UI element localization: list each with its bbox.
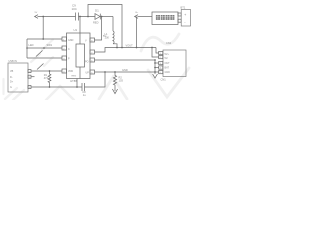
wire IC bottom stub to ground rail — [76, 79, 78, 88]
svg-text:5V+: 5V+ — [165, 53, 170, 56]
junction — [116, 47, 118, 49]
pin square U1-6 — [90, 50, 95, 54]
wire VOUT elbow to CN1 pin2 — [152, 48, 159, 58]
pin square U1-8 — [90, 70, 95, 74]
wire C9 to LED junction — [79, 16, 96, 18]
switch arm S2 — [37, 64, 44, 70]
svg-text:C: C — [68, 48, 70, 51]
junction — [87, 16, 89, 18]
pin square U2-B- — [178, 19, 181, 22]
switch arm S1 — [36, 51, 43, 57]
ground arrow — [112, 89, 117, 94]
wire top rail to C9 — [38, 16, 76, 18]
wire vertical from top net to pin1 row — [42, 17, 44, 40]
wire up from LED node to top rail — [88, 5, 122, 48]
wire down to VOUT rail — [136, 17, 138, 48]
resistor R2 vertical — [113, 72, 116, 91]
svg-text:PO: PO — [85, 61, 89, 64]
junction — [154, 59, 156, 61]
pin square U2-B+ — [178, 13, 181, 16]
wire inductor to VOUT rail — [113, 44, 117, 48]
svg-text:RED: RED — [93, 21, 99, 25]
junction — [42, 38, 44, 40]
pin square CN1-5 — [159, 70, 163, 73]
svg-text:104: 104 — [72, 7, 77, 11]
capacitor C8 plates — [82, 83, 85, 91]
node VBAT arrow (right net arrow) — [135, 15, 138, 19]
wire pin3 row — [27, 57, 62, 59]
pin square J1-2 — [28, 75, 31, 78]
junction — [136, 47, 138, 49]
diode D1 — [95, 14, 100, 20]
junction — [49, 70, 51, 72]
svg-text:5V-: 5V- — [165, 57, 169, 60]
wire inner block to IC bottom edge — [79, 67, 81, 79]
junction — [104, 71, 106, 73]
wire arrow to protection module — [138, 16, 153, 18]
wire junction down to IC pin5 — [95, 17, 102, 41]
pin square J1-1 — [28, 70, 31, 73]
wire J1-2 stub — [31, 76, 35, 78]
wire bus to CN1 pin4 — [155, 67, 159, 69]
IC U1 body — [67, 33, 91, 79]
junction — [49, 86, 51, 88]
pin square CN1-1 — [159, 51, 163, 54]
pin square J1-3 — [28, 86, 31, 89]
pin square U1-3 — [62, 56, 67, 60]
ground arrow below CN1 — [153, 74, 158, 78]
watermark — [4, 34, 190, 100]
IC U1 inner block — [76, 44, 85, 67]
pin square CN1-3 — [159, 61, 163, 64]
battery connector BT1 — [181, 10, 190, 27]
inductor L1 — [113, 31, 114, 44]
pin square U1-4 — [62, 69, 67, 73]
svg-text:HT88: HT88 — [70, 79, 77, 83]
svg-text:OUT: OUT — [165, 62, 171, 65]
wire VOUT elbow to CN1 pin1 — [156, 48, 159, 54]
svg-text:VDD: VDD — [68, 70, 73, 73]
wire pin1 row — [27, 38, 62, 40]
svg-text:SW1: SW1 — [47, 43, 53, 47]
svg-text:LED: LED — [29, 43, 34, 47]
wire cap node into IC inner block — [79, 17, 81, 45]
wire U1-8 ground row — [95, 71, 159, 73]
wire J1-3 to ground rail — [31, 86, 82, 88]
junction — [151, 47, 153, 49]
svg-text:REG: REG — [72, 76, 77, 78]
wire pin4 row from USB — [31, 70, 62, 72]
pin square U1-7 — [90, 58, 95, 62]
node VBUS arrow (top-left net arrow) — [35, 15, 38, 19]
svg-text:D1: D1 — [95, 9, 99, 13]
svg-text:UP: UP — [86, 72, 90, 75]
svg-text:GND: GND — [165, 71, 171, 74]
svg-text:472: 472 — [44, 76, 49, 80]
wire down into inductor L1 — [112, 17, 114, 32]
wire C8 to riser — [85, 72, 106, 87]
svg-text:D-: D- — [10, 76, 13, 79]
svg-text:VB: VB — [10, 70, 14, 73]
junction — [42, 16, 44, 18]
junction — [101, 16, 103, 18]
resistor R1 vertical — [48, 71, 51, 87]
svg-text:GND: GND — [68, 39, 74, 42]
svg-text:GND: GND — [122, 68, 128, 72]
pin square U1-1 — [62, 37, 67, 41]
wire U1-6 to VOUT rail — [95, 48, 157, 53]
svg-text:103: 103 — [119, 79, 124, 83]
capacitor C9 plates — [76, 13, 79, 21]
svg-text:5V: 5V — [103, 34, 106, 38]
connector CN1 — [163, 50, 186, 77]
USB connector J1 — [8, 63, 28, 92]
svg-text:G: G — [10, 86, 12, 89]
pin square U1-2 — [62, 46, 67, 50]
wire pin2 row — [27, 47, 62, 49]
pin square CN1-2 — [159, 55, 163, 58]
svg-text:CN1: CN1 — [166, 41, 172, 45]
svg-text:USB IN: USB IN — [9, 60, 18, 63]
svg-text:U1: U1 — [74, 28, 78, 32]
svg-text:BAT: BAT — [165, 67, 170, 70]
left bus vertical — [26, 39, 28, 58]
labels — [9, 4, 188, 98]
wire U1-7 to GND bus — [95, 59, 156, 61]
junction — [114, 71, 116, 73]
GND bus vertical — [154, 60, 156, 74]
svg-text:CN1: CN1 — [161, 77, 167, 81]
protection module U2 — [152, 12, 178, 25]
wire bus to CN1 pin3 — [155, 62, 159, 64]
pin square CN1-4 — [159, 66, 163, 69]
svg-text:VOUT: VOUT — [126, 43, 134, 47]
svg-text:BT1: BT1 — [181, 6, 186, 10]
wire diode to corner — [100, 16, 113, 18]
junction — [43, 47, 45, 49]
pin square U1-5 — [90, 38, 95, 42]
